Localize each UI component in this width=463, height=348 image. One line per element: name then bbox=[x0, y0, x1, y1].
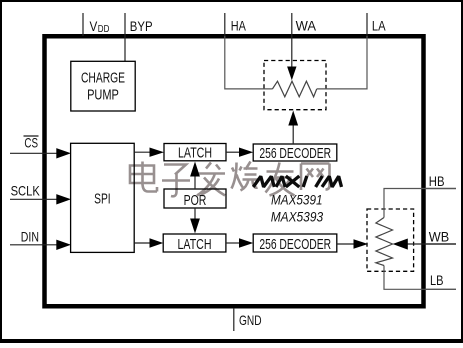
wire HB to potentiometer B bbox=[384, 189, 456, 218]
svg-text:256 DECODER: 256 DECODER bbox=[259, 236, 331, 253]
svg-text:LA: LA bbox=[372, 18, 386, 34]
svg-text:SCLK: SCLK bbox=[11, 182, 41, 198]
svg-text:DD: DD bbox=[98, 24, 110, 35]
wire LATCH top to DECODER top bbox=[226, 148, 253, 157]
svg-text:PUMP: PUMP bbox=[87, 86, 119, 103]
pin LA bbox=[367, 13, 386, 36]
pin HA bbox=[225, 13, 247, 36]
block 256 DECODER (bottom) bbox=[253, 234, 337, 253]
svg-text:SPI: SPI bbox=[94, 190, 111, 207]
svg-text:CS: CS bbox=[24, 134, 38, 150]
wire POR to LATCH bottom bbox=[190, 208, 200, 234]
svg-text:WA: WA bbox=[296, 18, 317, 34]
block 256 DECODER (top) bbox=[253, 144, 337, 162]
pin HB bbox=[426, 173, 456, 189]
wire HA to potentiometer A bbox=[225, 36, 273, 89]
wire LB to potentiometer B bbox=[384, 266, 456, 290]
resistor zigzag B bbox=[376, 218, 393, 266]
wire DECODER bottom to potentiometer B bbox=[337, 239, 368, 248]
potentiometer A dashed box bbox=[264, 61, 326, 110]
pin LB bbox=[426, 272, 456, 289]
pin WA bbox=[292, 13, 317, 36]
logo MAXIM bbox=[253, 176, 341, 187]
wire SPI to LATCH bottom bbox=[134, 238, 163, 247]
wire POR to LATCH top bbox=[190, 162, 200, 190]
resistor zigzag A bbox=[272, 81, 316, 97]
watermark bbox=[130, 162, 330, 197]
block POR bbox=[164, 189, 226, 209]
outer frame bbox=[0, 0, 463, 2]
svg-text:HB: HB bbox=[429, 173, 445, 189]
svg-text:LATCH: LATCH bbox=[178, 236, 212, 253]
block CHARGE PUMP bbox=[71, 61, 135, 111]
svg-text:MAX5393: MAX5393 bbox=[271, 208, 324, 224]
svg-text:GND: GND bbox=[239, 312, 262, 328]
pin BYP bbox=[125, 13, 153, 61]
pin CS bbox=[10, 134, 71, 158]
block LATCH (top) bbox=[164, 144, 226, 162]
pin GND bbox=[234, 308, 262, 331]
svg-text:CHARGE: CHARGE bbox=[81, 70, 125, 87]
block SPI bbox=[71, 143, 135, 252]
svg-text:V: V bbox=[90, 18, 98, 34]
svg-text:LB: LB bbox=[430, 272, 444, 288]
wire WB wiper arrow bbox=[393, 239, 456, 250]
pin WB bbox=[426, 229, 456, 245]
svg-text:256 DECODER: 256 DECODER bbox=[259, 145, 331, 162]
block LATCH (bottom) bbox=[163, 234, 226, 253]
pin SCLK bbox=[10, 182, 71, 204]
svg-text:HA: HA bbox=[231, 18, 247, 34]
svg-text:DIN: DIN bbox=[21, 228, 39, 244]
wire DECODER top to potentiometer A bbox=[288, 111, 298, 145]
potentiometer B dashed box bbox=[367, 209, 414, 271]
svg-text:BYP: BYP bbox=[130, 18, 153, 34]
wire SPI to LATCH top bbox=[134, 148, 164, 157]
svg-text:LATCH: LATCH bbox=[178, 145, 212, 162]
pin VDD bbox=[83, 13, 109, 36]
wire WA wiper arrow bbox=[287, 36, 296, 80]
wire LATCH bottom to DECODER bottom bbox=[226, 238, 253, 247]
svg-text:MAX5391: MAX5391 bbox=[271, 192, 323, 208]
wire LA to potentiometer A bbox=[317, 36, 367, 89]
svg-text:POR: POR bbox=[184, 192, 207, 209]
svg-text:WB: WB bbox=[429, 229, 449, 245]
pin DIN bbox=[10, 228, 71, 250]
IC boundary bbox=[45, 36, 424, 306]
